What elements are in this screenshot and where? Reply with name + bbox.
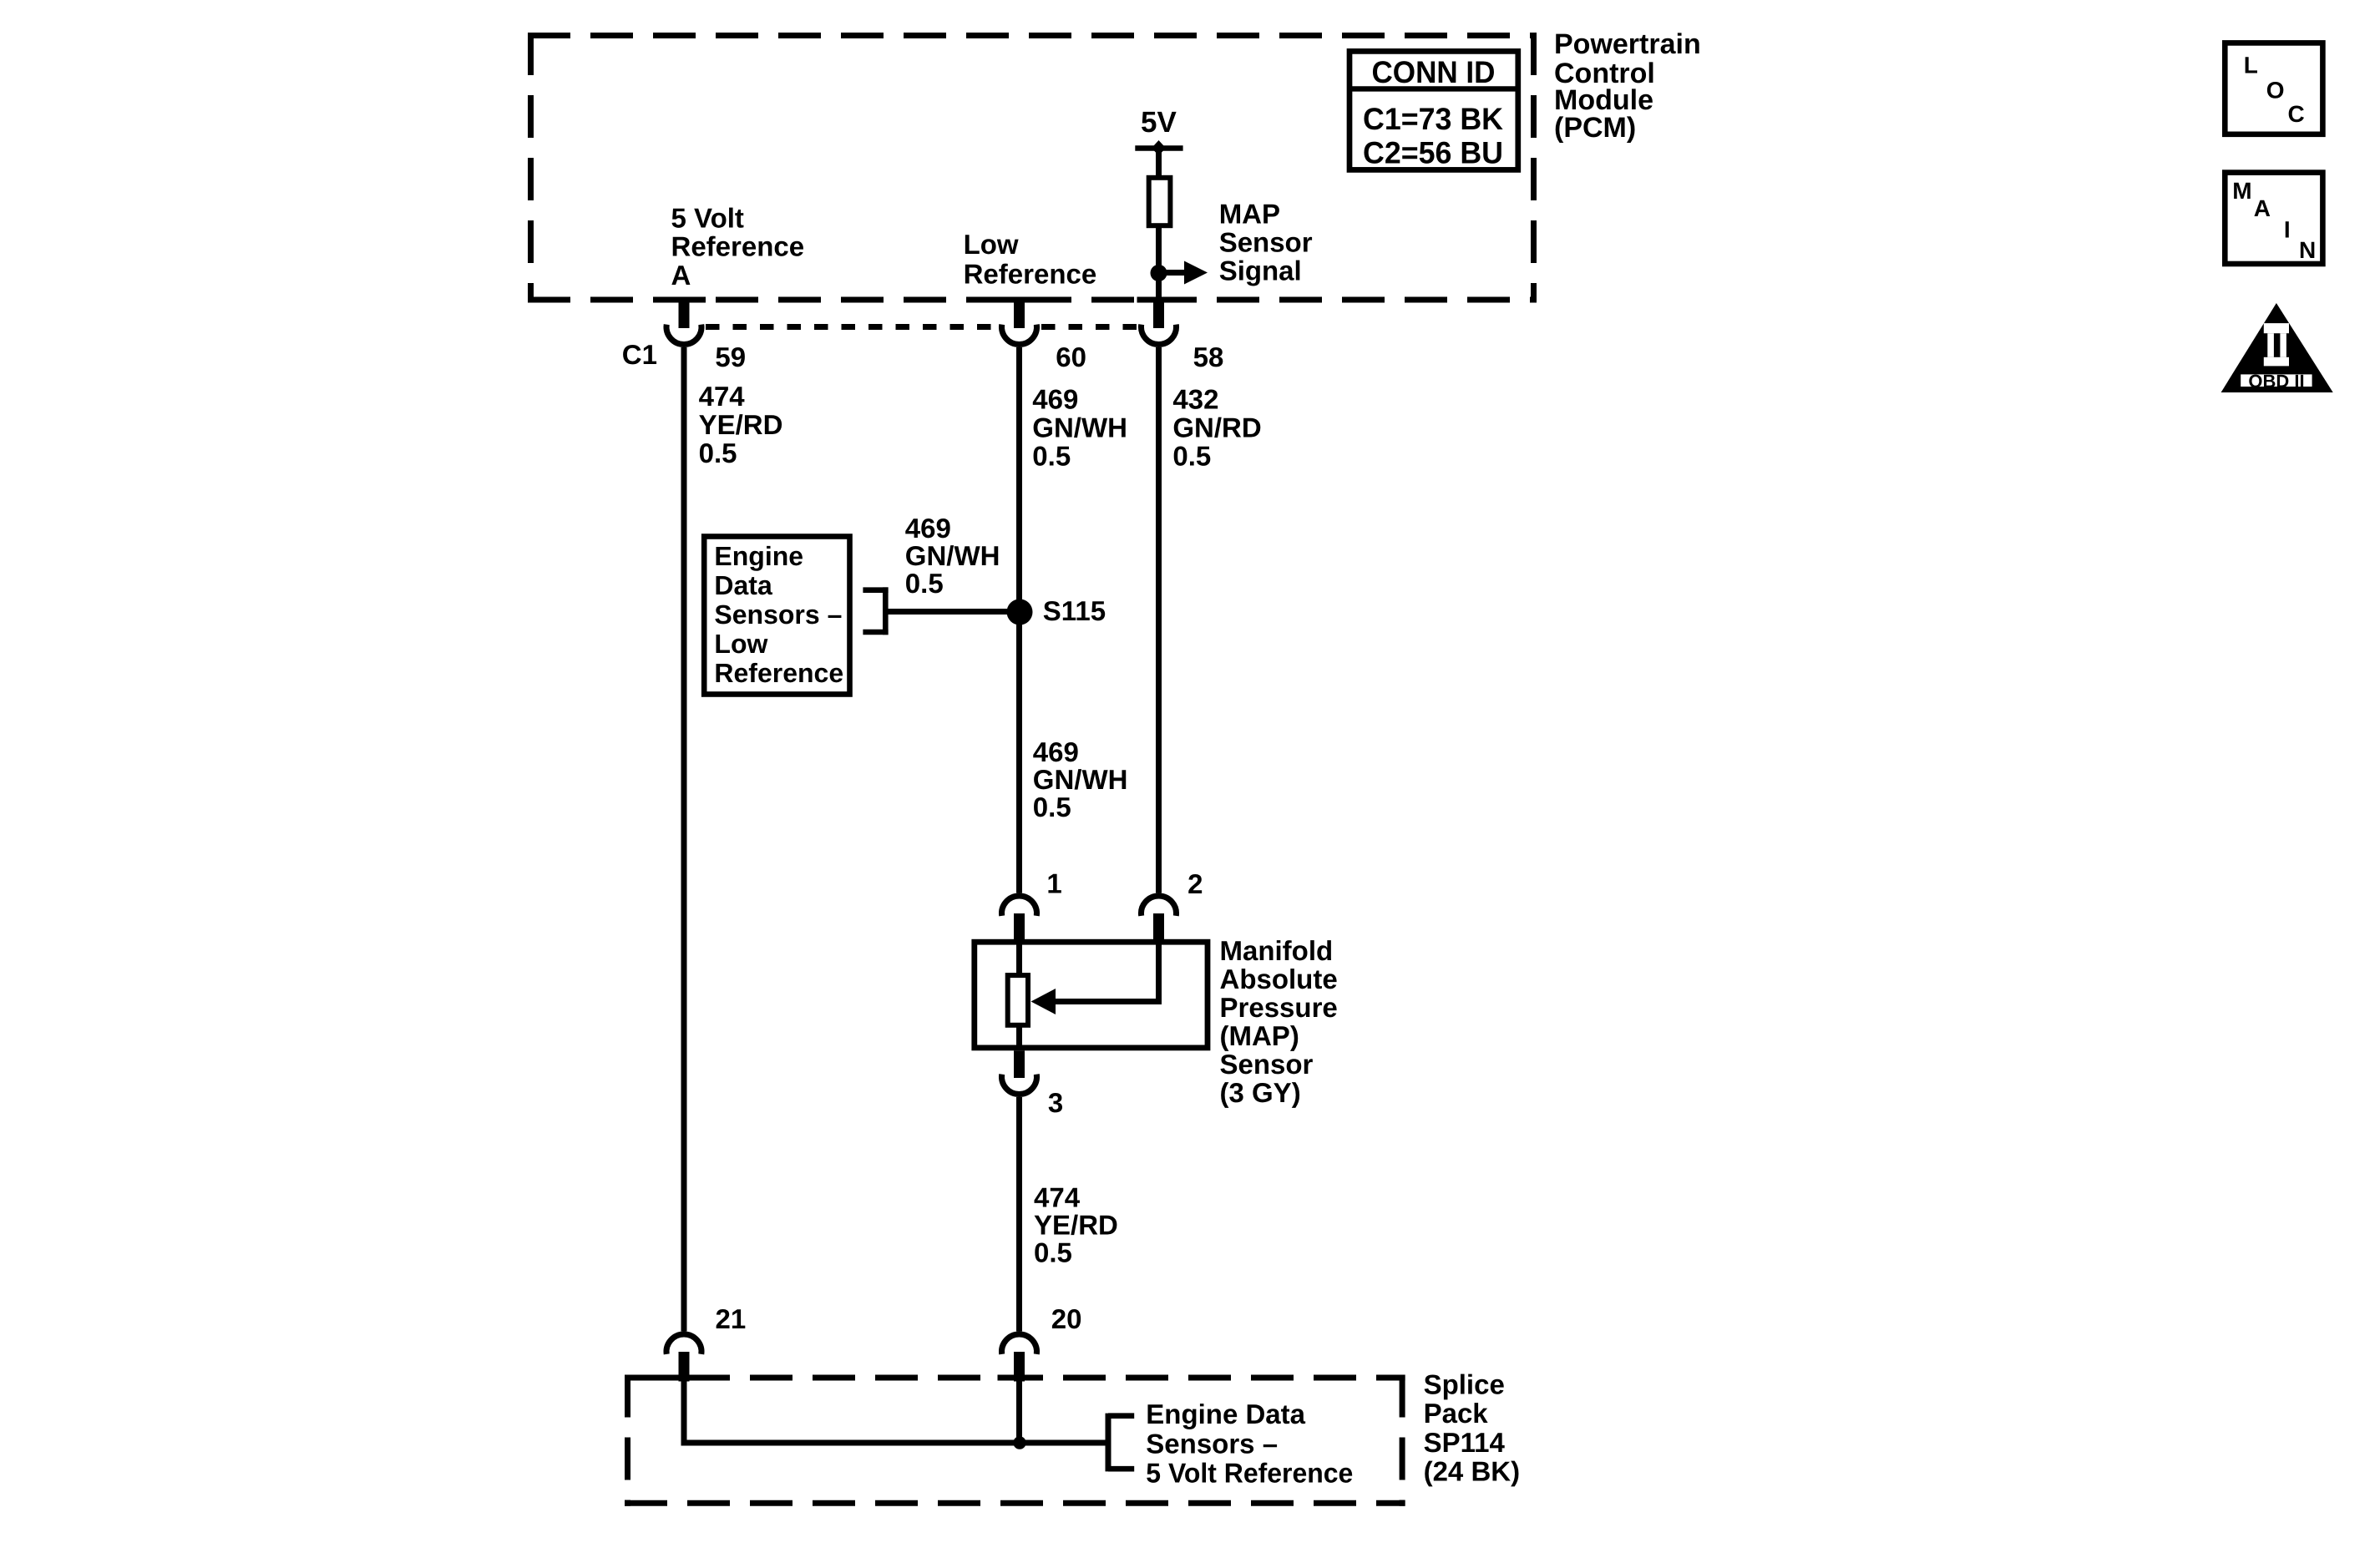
svg-text:N: N bbox=[2299, 237, 2316, 263]
svg-text:469: 469 bbox=[1033, 736, 1079, 767]
MAP pin 1 connector arc bbox=[1002, 896, 1037, 916]
OBD II triangle icon bbox=[2221, 303, 2333, 392]
wiper wire bbox=[1054, 999, 1162, 1004]
svg-text:L: L bbox=[2244, 52, 2258, 78]
label 5 Volt Reference A bbox=[671, 203, 805, 291]
svg-text:(3 GY): (3 GY) bbox=[1220, 1077, 1301, 1108]
PCM module dashed box bbox=[528, 33, 1537, 303]
wire pin 1 into sensor bbox=[1016, 942, 1022, 974]
bracket to Engine Data Sensors 5 Volt Reference bbox=[1108, 1414, 1134, 1472]
svg-text:(PCM): (PCM) bbox=[1554, 112, 1636, 144]
label 469 GN/WH 0.5 (lower) bbox=[1033, 736, 1128, 822]
splice S115 junction dot bbox=[1007, 599, 1033, 625]
svg-text:5 Volt Reference: 5 Volt Reference bbox=[1146, 1458, 1353, 1489]
wiper arrowhead bbox=[1031, 989, 1056, 1014]
svg-text:GN/WH: GN/WH bbox=[1033, 764, 1128, 795]
pin 59 terminal stub bbox=[679, 297, 690, 328]
svg-text:Low: Low bbox=[964, 229, 1019, 260]
connector C1 dashed line bbox=[706, 324, 1137, 330]
label Manifold Absolute Pressure (MAP) Sensor (3 GY) bbox=[1220, 935, 1338, 1108]
MAIN icon box bbox=[2225, 173, 2322, 264]
pin 21 connector arc bbox=[666, 1334, 701, 1354]
MAP pin 3 terminal stub bbox=[1014, 1050, 1025, 1078]
svg-text:GN/WH: GN/WH bbox=[905, 540, 1000, 571]
svg-text:0.5: 0.5 bbox=[905, 568, 944, 599]
svg-text:5 Volt: 5 Volt bbox=[671, 203, 744, 234]
svg-text:YE/RD: YE/RD bbox=[1034, 1210, 1118, 1241]
svg-text:(MAP): (MAP) bbox=[1220, 1020, 1299, 1051]
5V supply rail bar bbox=[1135, 145, 1182, 151]
pin 60 terminal stub bbox=[1014, 297, 1025, 328]
svg-text:60: 60 bbox=[1056, 341, 1086, 372]
svg-text:Reference: Reference bbox=[671, 231, 805, 262]
resistor R (PCM internal pull-up) bbox=[1149, 178, 1171, 225]
label Splice Pack SP114 (24 BK) bbox=[1424, 1368, 1521, 1486]
label 469 GN/WH 0.5 (branch) bbox=[905, 513, 1000, 599]
pin 21 terminal stub bbox=[679, 1352, 690, 1382]
MAP sensor signal arrowhead bbox=[1184, 261, 1208, 285]
svg-text:(24 BK): (24 BK) bbox=[1424, 1456, 1521, 1487]
svg-text:20: 20 bbox=[1051, 1303, 1082, 1334]
LOC icon box bbox=[2225, 43, 2322, 134]
svg-text:21: 21 bbox=[716, 1303, 747, 1334]
bracket to Engine Data Sensors box bbox=[863, 587, 888, 635]
svg-text:Splice: Splice bbox=[1424, 1368, 1505, 1399]
svg-text:1: 1 bbox=[1046, 868, 1061, 898]
pin 58 connector arc bbox=[1142, 325, 1177, 345]
pin 59 connector arc bbox=[666, 325, 701, 345]
svg-text:469: 469 bbox=[905, 513, 951, 544]
svg-text:C1: C1 bbox=[622, 339, 657, 370]
wire 469 GN/WH pin 60 to MAP pin 1 bbox=[1016, 347, 1022, 893]
wire bracket to splice S115 bbox=[885, 609, 1013, 615]
Splice Pack SP114 dashed box bbox=[625, 1375, 1405, 1506]
svg-text:Sensors –: Sensors – bbox=[714, 599, 842, 630]
node: MAP signal junction dot bbox=[1151, 265, 1167, 281]
label Powertrain Control Module (PCM) bbox=[1554, 28, 1701, 144]
svg-text:5V: 5V bbox=[1141, 106, 1177, 139]
pin 58 terminal stub bbox=[1153, 297, 1164, 328]
svg-text:59: 59 bbox=[715, 341, 746, 372]
wire resistor to signal node bbox=[1156, 225, 1162, 273]
label Low Reference bbox=[964, 229, 1097, 290]
svg-text:A: A bbox=[2254, 195, 2271, 221]
svg-text:Engine: Engine bbox=[714, 541, 803, 571]
svg-text:S115: S115 bbox=[1043, 595, 1106, 626]
svg-text:0.5: 0.5 bbox=[1033, 792, 1071, 822]
pin 20 terminal stub bbox=[1014, 1352, 1025, 1382]
MAP pin 2 connector arc bbox=[1142, 896, 1177, 916]
svg-text:Sensors –: Sensors – bbox=[1146, 1428, 1278, 1459]
svg-text:Signal: Signal bbox=[1219, 255, 1302, 286]
label MAP Sensor Signal bbox=[1219, 199, 1313, 286]
svg-text:474: 474 bbox=[699, 381, 746, 412]
wire pin 20 to bus bbox=[1016, 1381, 1022, 1444]
svg-text:OBD II: OBD II bbox=[2248, 371, 2304, 392]
MAP sensor box bbox=[975, 942, 1208, 1048]
svg-text:M: M bbox=[2232, 178, 2251, 204]
svg-text:Manifold: Manifold bbox=[1220, 935, 1334, 966]
wire pin 21 to bus corner bbox=[684, 1381, 1106, 1444]
svg-text:2: 2 bbox=[1187, 868, 1203, 899]
wire below potentiometer bbox=[1016, 1027, 1022, 1048]
svg-text:A: A bbox=[671, 260, 691, 291]
svg-text:MAP: MAP bbox=[1219, 199, 1280, 230]
svg-text:C: C bbox=[2288, 101, 2305, 127]
svg-text:CONN ID: CONN ID bbox=[1372, 55, 1496, 89]
svg-text:474: 474 bbox=[1034, 1182, 1081, 1213]
svg-text:0.5: 0.5 bbox=[1172, 440, 1211, 471]
label Engine Data Sensors 5 Volt Reference bbox=[1146, 1399, 1353, 1489]
bus junction dot bbox=[1013, 1436, 1025, 1449]
svg-text:Pressure: Pressure bbox=[1220, 992, 1338, 1023]
svg-text:Reference: Reference bbox=[714, 658, 843, 688]
svg-text:0.5: 0.5 bbox=[1032, 440, 1071, 471]
svg-text:3: 3 bbox=[1048, 1087, 1063, 1118]
svg-text:Data: Data bbox=[714, 570, 772, 600]
5V stub to resistor bbox=[1156, 149, 1162, 179]
Engine Data Sensors Low Reference box bbox=[704, 537, 849, 695]
MAP pin 2 terminal stub bbox=[1153, 913, 1164, 945]
wire signal node to pin 58 bbox=[1156, 273, 1162, 298]
MAP sensor signal arrow line bbox=[1159, 270, 1186, 276]
svg-text:GN/RD: GN/RD bbox=[1172, 412, 1261, 443]
svg-text:Sensor: Sensor bbox=[1220, 1049, 1314, 1080]
wire pin 2 into sensor bbox=[1156, 942, 1162, 1004]
svg-text:SP114: SP114 bbox=[1424, 1427, 1506, 1458]
MAP pin 1 terminal stub bbox=[1014, 913, 1025, 945]
pin 20 connector arc bbox=[1001, 1334, 1036, 1354]
svg-text:469: 469 bbox=[1032, 383, 1078, 414]
svg-text:O: O bbox=[2266, 77, 2285, 103]
potentiometer resistor element bbox=[1008, 975, 1028, 1025]
svg-text:Absolute: Absolute bbox=[1220, 964, 1338, 994]
svg-text:432: 432 bbox=[1172, 383, 1218, 414]
label 474 YE/RD 0.5 (upper) bbox=[699, 381, 783, 468]
label 474 YE/RD 0.5 (lower) bbox=[1034, 1182, 1118, 1268]
wire 474 YE/RD pin 59 to pin 21 bbox=[681, 347, 687, 1332]
svg-text:Low: Low bbox=[714, 629, 767, 659]
svg-text:Engine Data: Engine Data bbox=[1146, 1399, 1305, 1429]
svg-text:Sensor: Sensor bbox=[1219, 227, 1313, 258]
CONN ID table bbox=[1350, 51, 1518, 169]
MAP pin 3 connector arc bbox=[1002, 1075, 1037, 1095]
svg-text:0.5: 0.5 bbox=[1034, 1237, 1072, 1268]
label 469 GN/WH 0.5 (upper) bbox=[1032, 383, 1127, 471]
svg-text:58: 58 bbox=[1193, 341, 1224, 372]
svg-text:Pack: Pack bbox=[1424, 1398, 1489, 1429]
svg-text:Reference: Reference bbox=[964, 259, 1097, 290]
svg-text:0.5: 0.5 bbox=[699, 438, 737, 468]
5V rail junction dot bbox=[1152, 140, 1166, 155]
svg-text:GN/WH: GN/WH bbox=[1032, 412, 1127, 443]
label 432 GN/RD 0.5 bbox=[1172, 383, 1261, 471]
svg-text:Powertrain: Powertrain bbox=[1554, 28, 1701, 60]
wire 432 GN/RD pin 58 to MAP pin 2 bbox=[1156, 347, 1162, 893]
svg-text:YE/RD: YE/RD bbox=[699, 409, 783, 440]
svg-text:C2=56 BU: C2=56 BU bbox=[1363, 135, 1503, 169]
svg-text:I: I bbox=[2284, 217, 2291, 243]
svg-text:C1=73 BK: C1=73 BK bbox=[1363, 102, 1503, 136]
pin 60 connector arc bbox=[1002, 325, 1037, 345]
wire 474 YE/RD pin 3 to pin 20 bbox=[1016, 1097, 1022, 1332]
